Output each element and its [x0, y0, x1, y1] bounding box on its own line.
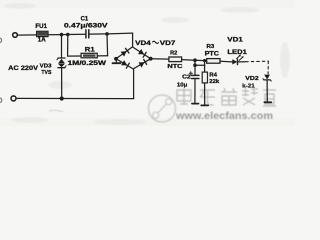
svg-text:10μ: 10μ	[177, 82, 188, 88]
svg-text:www.elecfans.com: www.elecfans.com	[175, 111, 273, 122]
TVS VD3 symbol	[58, 57, 65, 59]
ground C2	[192, 103, 199, 105]
resistor R4 lead	[204, 65, 206, 72]
svg-text:R2: R2	[170, 50, 178, 56]
terminal input top	[13, 33, 18, 38]
svg-text:22k: 22k	[209, 79, 220, 85]
C2 branch stub	[194, 60, 196, 65]
svg-text:FU1: FU1	[35, 23, 47, 30]
node: R4 tap	[203, 59, 206, 62]
watermark logo circle	[149, 95, 176, 122]
node: R1 right tap	[105, 32, 109, 36]
svg-text:R4: R4	[209, 72, 217, 78]
ground R4	[201, 104, 208, 106]
resistor R4	[202, 72, 207, 83]
node: stub junction	[193, 63, 197, 67]
svg-text:1M/0.25W: 1M/0.25W	[68, 60, 107, 67]
wire	[97, 55, 107, 57]
watermark ideograph 1	[177, 88, 191, 104]
diode VD7 lower-right	[139, 62, 145, 67]
wire top rail	[18, 34, 37, 36]
svg-text:0.47μ/630V: 0.47μ/630V	[64, 23, 109, 30]
svg-text:VD2: VD2	[245, 76, 259, 82]
svg-text:TVS: TVS	[41, 70, 51, 76]
wire	[48, 33, 86, 36]
edge artifact bottom-left circle fragment	[0, 98, 2, 103]
capacitor C2 lead	[194, 65, 196, 75]
wire bottom rail	[16, 97, 133, 99]
diode VD6 lower-left	[121, 60, 127, 65]
node: TVS tap	[60, 33, 64, 37]
paper background	[0, 0, 295, 126]
dashed link to VD2	[246, 60, 268, 63]
zener VD2	[264, 75, 270, 80]
svg-text:C1: C1	[81, 15, 89, 22]
thermistor R2 NTC	[169, 57, 182, 62]
capacitor C2 lower lead	[194, 79, 196, 104]
diode VD4 upper-left	[121, 51, 127, 57]
svg-text:PTC: PTC	[205, 51, 220, 58]
ground at bridge left corner	[115, 59, 117, 63]
scan noise	[4, 3, 290, 125]
node: C2 tap	[193, 58, 197, 62]
faint smudge bottom-left	[49, 110, 63, 112]
svg-text:LED1: LED1	[227, 49, 247, 56]
thermistor R3 PTC	[207, 59, 220, 64]
svg-text:NTC: NTC	[167, 64, 183, 70]
svg-text:AC 220V: AC 220V	[8, 65, 39, 72]
capacitor C2 plates	[192, 74, 199, 76]
zener VD2 lower lead	[266, 81, 268, 102]
watermark ideograph 4	[242, 88, 258, 105]
resistor R1	[81, 53, 97, 58]
LED VD1	[232, 59, 237, 64]
wire to bridge top	[132, 33, 134, 47]
node: bridge left corner	[114, 57, 118, 61]
svg-text:VD3: VD3	[40, 64, 53, 70]
TVS VD3 branch wire lower	[61, 68, 63, 99]
watermark ideograph 5	[263, 90, 276, 106]
terminal input bottom	[11, 96, 16, 101]
resistor R1 branch right bracket	[106, 34, 109, 56]
svg-text:VD4: VD4	[135, 40, 151, 47]
bridge rectifier VD4~VD7 frame	[116, 47, 151, 69]
wire bottom rail to bridge	[133, 69, 135, 99]
svg-text:R3: R3	[207, 44, 215, 50]
svg-text:VD1: VD1	[227, 37, 243, 44]
wire	[89, 33, 133, 34]
C2 polarity plus	[189, 72, 192, 74]
ground VD2	[264, 101, 271, 103]
wire bridge output	[151, 58, 169, 60]
svg-text:R1: R1	[85, 47, 96, 54]
watermark ideograph 2	[200, 90, 215, 105]
node: bridge right corner	[149, 57, 153, 61]
resistor R4 lower lead	[204, 83, 206, 105]
TVS VD3 branch wire upper	[61, 35, 63, 58]
labels	[8, 15, 259, 89]
capacitor C1	[85, 30, 87, 38]
wire	[182, 60, 207, 61]
LED VD1 emission arrows	[237, 55, 241, 58]
resistor R1 branch left bracket	[68, 35, 82, 57]
svg-text:VD7: VD7	[160, 40, 176, 47]
diode VD5 upper-right	[138, 49, 144, 54]
wire after LED	[238, 61, 246, 63]
stub wire to R4 branch	[195, 61, 205, 66]
edge artifact top-left circle fragment	[0, 38, 2, 43]
svg-text:1A: 1A	[38, 37, 47, 44]
watermark ideograph 3	[221, 88, 237, 105]
wire to LED	[220, 60, 232, 63]
node: TVS bottom junction	[60, 96, 64, 100]
node: R1 left tap	[66, 33, 70, 37]
svg-text:C2: C2	[182, 75, 191, 81]
fuse FU1	[37, 31, 48, 36]
svg-text:k-21: k-21	[242, 84, 255, 90]
